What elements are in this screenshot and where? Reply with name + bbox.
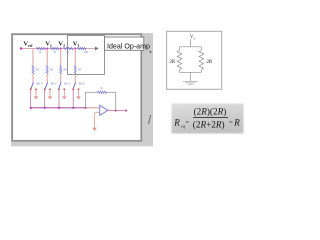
output wire [108, 110, 126, 112]
Ideal Op-amp label box [105, 37, 144, 50]
node V3 label [73, 41, 80, 49]
label box pointer mark [149, 50, 152, 52]
feedback resistor Rf [98, 91, 107, 93]
svg-text:2R: 2R [50, 68, 54, 72]
node V2 dot [60, 47, 62, 49]
junction: feedback tap on rail [115, 110, 117, 112]
right figure ground stem [189, 72, 191, 81]
switch SW3 right contact [63, 88, 65, 90]
right figure resistor 2R right [199, 47, 204, 73]
svg-text:Bit 2: Bit 2 [51, 82, 57, 86]
switch SW1 lever [31, 82, 34, 89]
svg-text:(2R)(2R): (2R)(2R) [194, 106, 227, 116]
svg-text:2R: 2R [169, 60, 176, 65]
resistor R1 [36, 47, 45, 50]
op-amp U1 [100, 105, 108, 115]
svg-text:Ideal Op-amp: Ideal Op-amp [107, 43, 150, 51]
branch 4 wire [74, 49, 76, 83]
resistor 2R branch 3 [60, 66, 62, 75]
switch SW3 ground arrow [62, 90, 67, 99]
switch SW2 ground arrow [48, 90, 53, 99]
junction dots on summing rail [30, 107, 86, 109]
svg-text:=: = [229, 118, 233, 126]
cropped italic letter [149, 115, 151, 124]
svg-text:R: R [173, 117, 180, 127]
switch SW1 right contact [35, 88, 37, 90]
svg-text:Bit 1: Bit 1 [64, 82, 70, 86]
svg-text:1: 1 [50, 44, 52, 48]
switch SW3 lever [59, 82, 62, 89]
ground under op-amp [92, 128, 97, 132]
feedback loop wire [85, 92, 115, 110]
equation panel [172, 104, 244, 134]
right figure wire from V3 [189, 39, 191, 47]
svg-text:2: 2 [63, 44, 65, 48]
right figure node V3 label [190, 35, 196, 40]
svg-text:2R: 2R [206, 60, 213, 65]
switch SW1 left contact [30, 88, 32, 90]
resistor 2R branch 1 [32, 66, 34, 75]
svg-text:2R: 2R [35, 68, 39, 72]
right figure top tie wire [180, 46, 202, 48]
switch SW4 right contact [78, 88, 80, 90]
node V1 dot [46, 47, 48, 49]
right figure resistor 2R left [177, 47, 182, 73]
switch SW2 lever [45, 82, 48, 89]
svg-text:Bit 3: Bit 3 [37, 82, 43, 86]
switch SW2 left contact [44, 88, 46, 90]
wire: contact drops to summing rail [31, 90, 73, 108]
wire: top ladder bus [21, 48, 95, 50]
node V2 label [58, 41, 65, 49]
svg-text:3: 3 [78, 44, 80, 48]
svg-text:Bit 0: Bit 0 [79, 82, 85, 86]
svg-text:2R: 2R [63, 68, 67, 72]
branch 1 wire [32, 49, 34, 83]
svg-text:R: R [233, 117, 240, 127]
svg-text:(2R+2R): (2R+2R) [193, 120, 225, 130]
arrow at ladder output [95, 47, 99, 51]
callout box around last ladder stage [68, 36, 105, 75]
main figure grey panel [11, 33, 153, 146]
node V1 label [45, 41, 52, 49]
resistor 2R branch 2 [46, 66, 48, 75]
resistor R4 [78, 47, 86, 50]
equation fraction bar [193, 117, 228, 119]
switch SW4 left contact [72, 88, 74, 90]
resistor R2 [50, 47, 58, 50]
right figure box [167, 31, 222, 89]
svg-text:2R: 2R [78, 68, 82, 72]
equation Req symbol [173, 117, 186, 128]
node Vref label [23, 41, 33, 49]
output node dot [125, 110, 127, 112]
switch SW2 right contact [49, 88, 51, 90]
right figure ground [183, 81, 198, 84]
switch SW3 left contact [58, 88, 60, 90]
switch SW4 ground arrow [76, 90, 81, 99]
svg-text:=: = [185, 118, 189, 126]
schematic canvas frame [12, 34, 141, 141]
node V3 dot [74, 47, 76, 49]
right figure bottom tie wire [180, 71, 202, 73]
branch 2 wire [46, 49, 48, 83]
node Vref dot [20, 47, 22, 49]
resistor 2R branch 4 [74, 66, 76, 75]
switch SW1 ground arrow [34, 90, 39, 99]
resistor R3 [64, 47, 73, 50]
wire: summing rail [31, 107, 86, 109]
switch SW4 lever [73, 82, 76, 89]
branch 3 wire [60, 49, 62, 83]
op-amp U1 input wires [95, 113, 100, 128]
